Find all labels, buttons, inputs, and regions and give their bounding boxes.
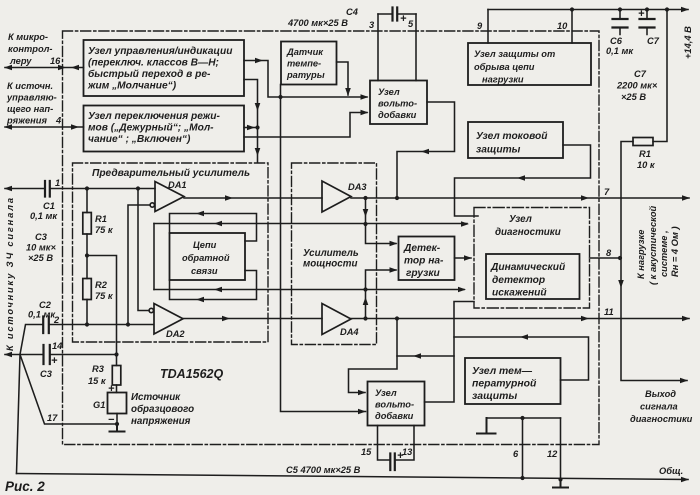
svg-text:С1: С1 (43, 201, 55, 211)
wire pin2 input line (20, 325, 154, 355)
svg-text:грузки: грузки (406, 268, 441, 279)
svg-text:защиты: защиты (472, 391, 517, 402)
svg-text:(переключ. классов В—Н;: (переключ. классов В—Н; (88, 58, 219, 69)
wire mode box output1 to V1 (244, 127, 256, 129)
svg-text:сигнала: сигнала (640, 402, 678, 412)
bootstrap bottom input2 arrow (358, 409, 366, 415)
wire V3 long control line to bootstrap bottom input2 (281, 97, 366, 412)
svg-text:К микро-: К микро- (8, 32, 48, 42)
into bootstrap top input1 (361, 94, 369, 100)
resistor R2 75k (83, 279, 92, 300)
svg-text:диагностики: диагностики (495, 227, 561, 238)
svg-text:( к акустической: ( к акустической (648, 205, 658, 285)
thermal protection left arrow (520, 334, 528, 340)
svg-text:R1: R1 (95, 214, 107, 224)
svg-text:DA3: DA3 (348, 182, 367, 192)
ground rail bottom (17, 474, 689, 480)
wire pin7 output line (351, 197, 689, 199)
mode switching unit box U-mode (84, 106, 245, 152)
svg-text:диагностики: диагностики (630, 414, 693, 424)
IC boundary TDA1562Q (dash-dot) (63, 31, 600, 445)
capacitor C5 plates (390, 454, 395, 471)
svg-text:С2: С2 (39, 300, 52, 310)
svg-text:R3: R3 (92, 364, 105, 374)
wire pin14 line (5, 354, 117, 356)
svg-text:добавки: добавки (378, 110, 417, 120)
svg-text:нагрузки: нагрузки (482, 75, 524, 85)
wire R2 bottom lead (86, 300, 88, 325)
svg-text:15 к: 15 к (88, 376, 107, 386)
svg-text:+: + (638, 8, 645, 20)
svg-text:Узел защиты от: Узел защиты от (474, 49, 555, 59)
long line top left arrow (214, 221, 222, 227)
svg-text:Детек-: Детек- (403, 243, 441, 254)
wire DA4 output branch to load detector input2 (366, 270, 397, 319)
svg-text:защиты: защиты (476, 145, 521, 156)
svg-text:чание“ ; „Включен“): чание“ ; „Включен“) (88, 134, 191, 145)
DA4 branch up arrow (363, 297, 369, 305)
svg-text:напряжения: напряжения (131, 416, 191, 427)
svg-text:С3: С3 (35, 232, 48, 242)
svg-text:вольто-: вольто- (378, 99, 417, 109)
svg-text:обрыва цепи: обрыва цепи (474, 62, 535, 72)
svg-text:G1: G1 (93, 400, 105, 410)
svg-text:управляю-: управляю- (6, 93, 57, 103)
svg-text:ратуры: ратуры (286, 70, 325, 80)
wire bootstrap top loop to pin7 node (397, 102, 455, 198)
svg-text:5: 5 (408, 19, 414, 29)
inverting input circle DA2 (149, 308, 153, 312)
inverting input circle DA1 (150, 203, 154, 207)
pin14 left tip (4, 352, 12, 358)
wire pin13 (395, 426, 414, 461)
capacitor C2 plates (43, 317, 49, 334)
svg-text:контрол-: контрол- (8, 44, 53, 54)
svg-text:2200 мк×: 2200 мк× (616, 81, 658, 91)
svg-text:4: 4 (55, 116, 62, 126)
bootstrap unit box (bottom) (368, 382, 425, 426)
temp sensor down arrow (345, 88, 351, 96)
long line bottom right arrow (458, 287, 466, 293)
svg-text:добавки: добавки (375, 411, 414, 421)
svg-text:Узел тем—: Узел тем— (472, 366, 533, 377)
svg-text:Источник: Источник (131, 392, 181, 403)
into bootstrap top input2 (361, 110, 369, 116)
capacitor C6 plates (613, 19, 628, 28)
svg-text:ряжения: ряжения (6, 116, 47, 126)
wire current protection output to diagnostics (455, 145, 591, 216)
svg-text:+: + (51, 355, 58, 367)
svg-text:Rн = 4 Ом ): Rн = 4 Ом ) (670, 226, 680, 277)
wire diagnostics bottom port to bootstrap bottom (425, 302, 475, 403)
wire R1 pullup from rail (653, 10, 667, 142)
svg-text:6: 6 (513, 449, 519, 459)
load detector output arrow (464, 255, 472, 261)
svg-text:детектор: детектор (492, 275, 545, 286)
svg-text:Усилитель: Усилитель (303, 248, 359, 259)
svg-text:9: 9 (477, 21, 483, 31)
svg-text:С4: С4 (346, 7, 359, 17)
op-amp DA1 (155, 182, 184, 212)
svg-text:Узел: Узел (509, 214, 532, 225)
pin16 left tip (4, 65, 12, 71)
svg-text:Узел управления/индикации: Узел управления/индикации (88, 46, 233, 57)
svg-text:быстрый переход в ре-: быстрый переход в ре- (88, 68, 211, 80)
pin4 into box (71, 124, 79, 130)
wire R1-R2 junction to pin14 bracket (87, 234, 117, 355)
svg-text:75 к: 75 к (95, 291, 114, 301)
svg-text:17: 17 (47, 413, 58, 423)
wire temp sensor right output (337, 62, 349, 95)
load detector input arrows (390, 241, 398, 247)
svg-text:13: 13 (402, 447, 413, 457)
wire pin6 to ground rail (522, 418, 524, 478)
resistor R3 15k (112, 366, 121, 386)
svg-text:+14,4 В: +14,4 В (683, 26, 693, 59)
svg-text:×25 В: ×25 В (28, 253, 53, 263)
svg-text:леру: леру (9, 56, 32, 66)
line-c left arrow (413, 353, 421, 359)
svg-text:Узел: Узел (378, 87, 400, 97)
pin4 left tip (4, 124, 12, 130)
wire G1 bottom to pin17 node (116, 414, 118, 425)
capacitor C1 plates (45, 181, 50, 197)
wire pin10 (571, 10, 573, 44)
wire input common slant to ground rail (17, 355, 21, 474)
wire pin15 (378, 426, 390, 461)
svg-text:щего нап-: щего нап- (7, 104, 53, 114)
wire internal ground bus (487, 417, 561, 419)
svg-text:системе ,: системе , (659, 230, 669, 277)
svg-text:темпе-: темпе- (287, 59, 321, 69)
wire ctrl box1 lower output V1 to preamp (244, 80, 258, 163)
load-break protection unit box (468, 43, 591, 85)
svg-text:+: + (400, 13, 407, 25)
thermal protection unit box (465, 358, 561, 404)
ground tick G1 (110, 424, 125, 432)
diagnostics output down arrow (618, 280, 624, 288)
wire DA1 output to DA3 (184, 197, 322, 199)
svg-text:Общ.: Общ. (659, 466, 683, 476)
DA2 out arrow (222, 316, 230, 322)
svg-text:Узел: Узел (375, 388, 397, 398)
svg-text:1: 1 (55, 178, 60, 188)
svg-text:Датчик: Датчик (286, 47, 324, 57)
fb inner bottom left arrow (196, 297, 204, 303)
wire pin4 line control voltage (5, 126, 84, 128)
svg-text:мов („Дежурный“; „Мол-: мов („Дежурный“; „Мол- (88, 123, 214, 134)
svg-text:14: 14 (52, 341, 63, 351)
svg-text:Узел переключения режи-: Узел переключения режи- (88, 111, 221, 122)
svg-text:Выход: Выход (645, 389, 676, 399)
ctrl box1 out arrow (255, 58, 263, 64)
svg-text:DA2: DA2 (166, 329, 185, 339)
svg-text:образцового: образцового (131, 404, 194, 415)
svg-text:мощности: мощности (303, 259, 357, 270)
fb inner top left arrow (196, 211, 204, 217)
temperature sensor box (281, 42, 337, 85)
svg-text:0,1 мк: 0,1 мк (30, 211, 58, 221)
diagnostics output right arrow (680, 378, 688, 384)
svg-text:К источн.: К источн. (7, 81, 53, 91)
svg-text:Цепи: Цепи (193, 240, 217, 250)
wire C7 leads (646, 10, 648, 35)
wire pin8 diagnostics line (590, 257, 622, 259)
reference voltage source G1 (108, 393, 127, 414)
svg-text:11: 11 (604, 307, 614, 317)
op-amp DA4 (322, 304, 351, 335)
DA1 out arrow (225, 195, 233, 201)
svg-text:10 к: 10 к (637, 160, 656, 170)
svg-text:16: 16 (50, 56, 61, 66)
op-amp DA2 (154, 304, 183, 335)
pin7 arrows (581, 195, 589, 201)
V1 arrows down (255, 103, 261, 111)
svg-text:пературной: пературной (472, 379, 537, 390)
current protection unit box (468, 122, 563, 158)
bootstrap top loop left arrow (421, 149, 429, 155)
svg-text:С6: С6 (610, 36, 623, 46)
long line bottom left arrow (214, 287, 222, 293)
control/indication unit box U-ctrl (84, 40, 245, 96)
bootstrap bottom input1 arrow (358, 390, 366, 396)
power amp dashed box (292, 163, 377, 345)
wire DA2 output to DA4 (183, 318, 322, 320)
svg-text:К нагрузке: К нагрузке (636, 230, 646, 279)
svg-text:−: − (108, 414, 115, 426)
supply rail arrow (681, 7, 689, 13)
svg-text:15: 15 (361, 447, 372, 457)
wire pin16 line to microcontroller (5, 67, 84, 69)
svg-text:тор на-: тор на- (404, 256, 444, 267)
wire DA1 inverting input to pin2 net (128, 205, 150, 325)
svg-text:TDA1562Q: TDA1562Q (160, 367, 223, 381)
svg-text:Предварительный усилитель: Предварительный усилитель (92, 168, 250, 179)
wire pin1 input line (5, 188, 155, 190)
wire DA2 inverting input to pin1 net (138, 189, 149, 311)
pin1 left tip (4, 186, 12, 192)
wire thermal protection output (454, 337, 589, 380)
svg-text:Рис. 2: Рис. 2 (5, 479, 45, 494)
capacitor C4 plates (393, 8, 398, 21)
svg-text:R2: R2 (95, 280, 108, 290)
svg-text:10 мк×: 10 мк× (26, 243, 57, 253)
svg-text:жим „Молчание“): жим „Молчание“) (87, 81, 177, 92)
wire feedback into DA2 via fb box bottom (170, 271, 257, 300)
svg-text:Узел токовой: Узел токовой (476, 131, 548, 142)
svg-text:искажений: искажений (492, 288, 547, 299)
wire control line into bootstrap bottom box (397, 355, 454, 357)
dynamic distortion detector box (486, 254, 580, 299)
svg-text:3: 3 (369, 20, 375, 30)
wire pin17 slant and line (20, 355, 117, 425)
svg-text:С5 4700 мк×25 В: С5 4700 мк×25 В (286, 465, 361, 475)
svg-text:К источнику ЗЧ сигнала: К источнику ЗЧ сигнала (5, 198, 15, 351)
capacitor C3 plates (44, 345, 50, 364)
svg-text:2: 2 (53, 315, 60, 325)
pin11 arrows (581, 316, 589, 322)
ground symbol pin12 (553, 480, 568, 488)
wire mode box output2 to bootstrap top input2 (244, 113, 367, 138)
wire pin12 to ground rail (560, 418, 562, 480)
wire temp sensor stub down (280, 85, 282, 98)
svg-text:7: 7 (604, 187, 610, 197)
svg-text:С7: С7 (647, 36, 660, 46)
wire DA3 output branch to load detector input1 (366, 198, 397, 244)
svg-text:8: 8 (606, 248, 612, 258)
wire pin3 C4 (377, 14, 379, 81)
current protection left arrow (517, 175, 525, 181)
ground tick internal (477, 418, 496, 434)
pin16 boundary pair (58, 65, 66, 71)
wire R1 top lead (86, 189, 88, 213)
wire R3 leads (116, 355, 118, 393)
svg-text:0,1 мк: 0,1 мк (28, 310, 56, 320)
wire long sense line DA3 output to diagnostics (154, 223, 467, 225)
svg-text:+: + (397, 450, 404, 462)
wire pin9 (487, 10, 489, 44)
svg-text:связи: связи (191, 266, 218, 276)
wire load detector output to diagnostics (455, 257, 472, 259)
svg-text:0,1 мк: 0,1 мк (606, 46, 634, 56)
wire feedback into DA1 via fb box top (170, 214, 257, 242)
wire C4 horizontal leads (378, 13, 416, 15)
op-amp DA3 (322, 181, 351, 212)
wire long sense line DA4 output to diagnostics (154, 289, 464, 291)
svg-text:С7: С7 (634, 69, 647, 79)
wire bootstrap bottom loop to pin11 node (349, 319, 398, 393)
bootstrap unit box (top) (370, 81, 427, 125)
svg-text:С3: С3 (40, 369, 53, 379)
feedback circuits box (170, 233, 246, 280)
wire outer feedback bracket (153, 224, 155, 290)
svg-text:75 к: 75 к (95, 225, 114, 235)
svg-text:R1: R1 (639, 149, 651, 159)
svg-text:12: 12 (547, 449, 558, 459)
wire R1 pullup to diagnostics output (621, 142, 687, 381)
svg-text:DA4: DA4 (340, 327, 359, 337)
wire ctrl box1 upper output to bootstrap top input1 (244, 61, 367, 98)
svg-text:×25 В: ×25 В (621, 92, 646, 102)
wire pin11 output line (351, 318, 689, 320)
preamp dashed box (73, 163, 269, 342)
wire pin5 C4 (415, 14, 417, 81)
svg-text:+: + (108, 383, 115, 395)
wire C6 leads (619, 10, 621, 35)
mode box out arrow (247, 125, 255, 131)
diagnostics dashed box (474, 208, 590, 309)
load detector box (399, 237, 455, 281)
svg-text:вольто-: вольто- (375, 400, 414, 410)
capacitor C7 plates (640, 19, 655, 28)
svg-text:обратной: обратной (182, 253, 230, 263)
long line top right arrow (461, 221, 469, 227)
svg-text:4700 мк×25 В: 4700 мк×25 В (287, 18, 348, 28)
junction dots (85, 186, 89, 190)
resistor R1 75k (83, 213, 92, 235)
svg-text:10: 10 (557, 21, 568, 31)
resistor R1 10k (external) (633, 138, 653, 146)
svg-text:DA1: DA1 (168, 180, 187, 190)
DA3 branch down arrow (363, 209, 369, 217)
ground rail right arrow (681, 477, 689, 483)
supply rail +14.4V (488, 9, 688, 11)
svg-text:Динамический: Динамический (490, 262, 566, 273)
